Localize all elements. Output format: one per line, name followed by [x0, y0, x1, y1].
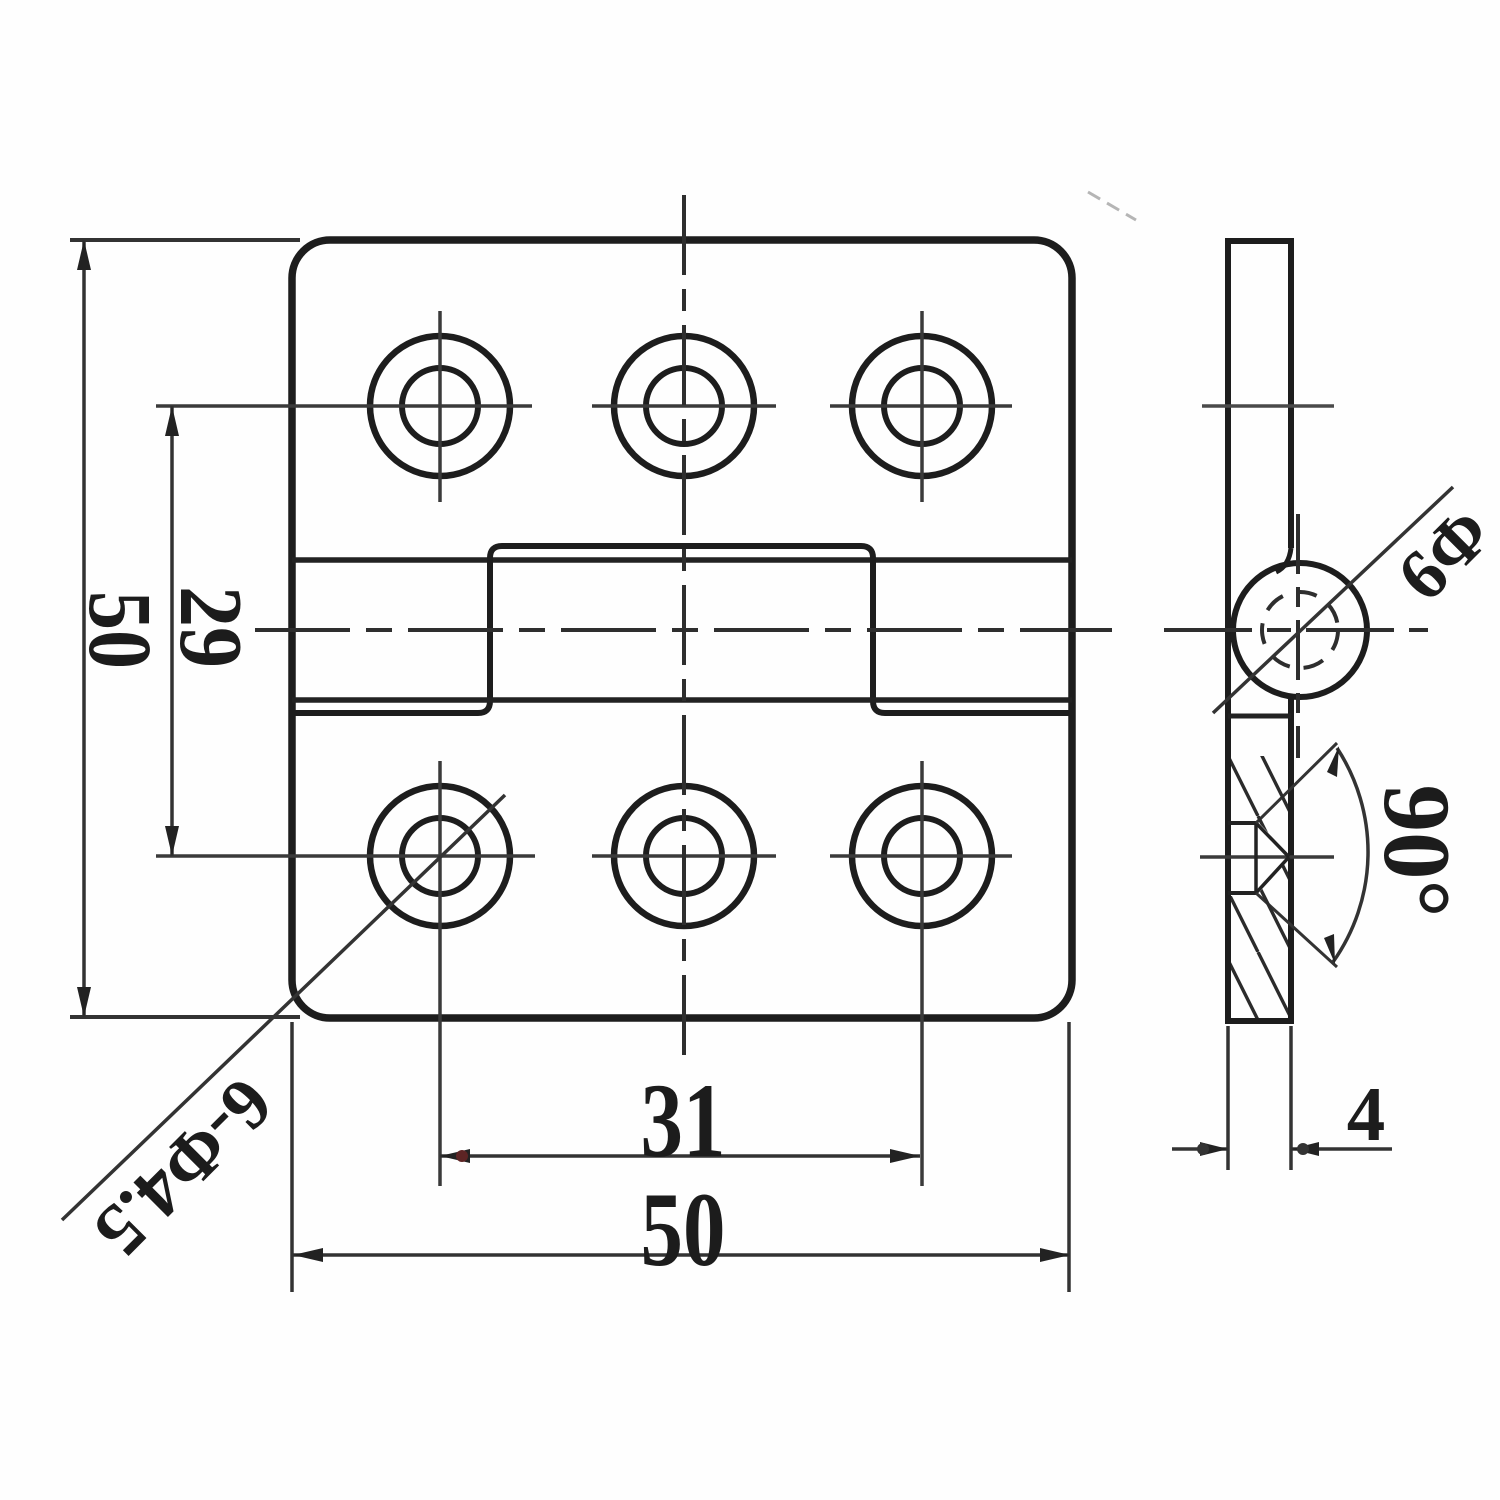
middle knuckle top edge with step verticals	[292, 546, 1072, 713]
arrow left	[293, 1248, 323, 1262]
90 degree arc	[1333, 748, 1368, 962]
countersink channel bottom	[1228, 891, 1256, 895]
dim line 31	[440, 1154, 920, 1158]
svg-text:6-Φ4.5: 6-Φ4.5	[78, 1062, 288, 1272]
crosshair A2 horizontal	[592, 404, 776, 408]
dot artifact left	[456, 1150, 468, 1162]
arrow right	[890, 1149, 920, 1163]
fillet into barrel	[1276, 548, 1291, 572]
right edge upper	[1288, 241, 1294, 548]
hole A1 inner	[402, 368, 478, 444]
hole B3 inner	[884, 818, 960, 894]
dim line right segment	[1291, 1147, 1392, 1151]
side horizontal centerline	[1164, 628, 1428, 632]
svg-text:90°: 90°	[1364, 785, 1470, 918]
plate outline (rounded square 50x50)	[292, 240, 1072, 1018]
leader line 6Φ	[1213, 487, 1453, 713]
svg-text:4: 4	[1347, 1071, 1386, 1157]
left edge	[1225, 241, 1231, 1021]
hole B3 (bottom-right) outer	[852, 786, 992, 926]
crosshair A1 vertical	[438, 311, 442, 502]
arrow up	[165, 406, 179, 436]
arc arrow top	[1327, 746, 1339, 777]
hole A2 inner	[646, 368, 722, 444]
arrow pointing left at right edge	[1291, 1142, 1319, 1156]
dim line 29 vertical	[170, 406, 174, 856]
svg-text:31: 31	[641, 1062, 726, 1179]
crosshair B3 vertical (extends to 31-dim)	[920, 761, 924, 1186]
hole A2 (top-middle) outer	[614, 336, 754, 476]
countersink cone lower flank	[1256, 857, 1289, 893]
hatch lower region	[1231, 860, 1288, 1018]
top edge extension line	[70, 238, 300, 242]
bottom edge	[1225, 1018, 1294, 1024]
leader line for 6-Φ4.5	[62, 795, 505, 1220]
arrow down	[165, 826, 179, 856]
dot artifact	[1297, 1143, 1309, 1155]
dot artifact	[1197, 1143, 1209, 1155]
bottom edge extension line	[70, 1015, 300, 1019]
crosshair B2 horizontal	[592, 854, 776, 858]
right extension	[1289, 1026, 1293, 1170]
crosshair A3 horizontal	[830, 404, 1012, 408]
hole A1 (top-left) outer	[370, 336, 510, 476]
hole B1 (bottom-left) outer	[370, 786, 510, 926]
left extension line	[290, 1022, 294, 1292]
knuckle barrel circle	[1233, 563, 1367, 697]
bottom leaf top edge	[292, 697, 1072, 703]
crosshair B1 horizontal (also 29-dim extension)	[156, 854, 535, 858]
pin circle (dashed)	[1262, 592, 1338, 668]
arrow left	[440, 1149, 470, 1163]
dim line left segment	[1172, 1147, 1228, 1151]
hole row 1 extension line	[1202, 404, 1334, 408]
svg-text:50: 50	[641, 1171, 726, 1288]
countersink channel top	[1228, 821, 1256, 825]
top edge	[1225, 238, 1294, 244]
hole B2 inner	[646, 818, 722, 894]
hole row 2 crosshair	[1200, 855, 1334, 859]
countersink cone upper flank	[1256, 823, 1289, 857]
angle wing lower	[1256, 893, 1337, 967]
svg-text:29: 29	[161, 586, 260, 668]
arrow right	[1040, 1248, 1070, 1262]
right extension line	[1067, 1022, 1071, 1292]
top leaf bottom edge	[292, 557, 1072, 563]
left extension	[1226, 1026, 1230, 1170]
hole B1 inner	[402, 818, 478, 894]
crosshair A3 vertical	[920, 311, 924, 502]
crosshair B1 vertical (extends to 31-dim)	[438, 761, 442, 1186]
vertical center line x=684 (dash-dot)	[682, 195, 686, 1062]
countersink throat vertical	[1254, 823, 1258, 893]
arrow up	[77, 240, 91, 270]
arc arrow bottom	[1324, 934, 1335, 964]
dim line 50 vertical	[82, 240, 86, 1017]
leaf junction line	[1228, 714, 1291, 719]
right edge lower	[1288, 698, 1294, 1021]
side vertical centerline	[1296, 514, 1300, 758]
crosshair B3 horizontal	[830, 854, 1012, 858]
angle wing upper	[1256, 743, 1337, 823]
arrow pointing right at left edge	[1200, 1142, 1228, 1156]
arrow down	[77, 987, 91, 1017]
faint scratch mark top right	[1088, 192, 1136, 220]
hole B2 (bottom-middle) outer	[614, 786, 754, 926]
svg-text:50: 50	[70, 591, 169, 669]
hole A3 (top-right) outer	[852, 336, 992, 476]
horizontal center line (hinge axis, dash-dot)	[255, 628, 1112, 632]
hatch upper region	[1231, 756, 1288, 853]
crosshair A1 horizontal (also 29-dim extension)	[156, 404, 532, 408]
svg-text:6Φ: 6Φ	[1382, 492, 1500, 616]
hole A3 inner	[884, 368, 960, 444]
dim line 50 bottom	[293, 1253, 1070, 1257]
